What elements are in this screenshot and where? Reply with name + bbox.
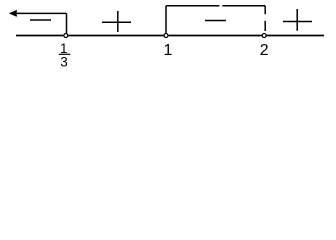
open circle at 1/3 bbox=[64, 34, 68, 38]
box left vertical at 1 bbox=[165, 6, 167, 33]
svg-text:2: 2 bbox=[260, 42, 269, 59]
minus sign left interval bbox=[30, 19, 51, 21]
plus sign right interval horizontal bbox=[283, 21, 312, 23]
box right vertical dash 2 bbox=[264, 21, 266, 31]
plus sign interval (1/3,1) horizontal bbox=[102, 21, 131, 23]
box top edge segment 1 bbox=[166, 5, 219, 7]
box right vertical dash 1 bbox=[264, 6, 266, 14]
box top edge segment 2 bbox=[222, 5, 265, 7]
plus sign interval (1/3,1) vertical bbox=[117, 11, 119, 32]
open circle at 1 bbox=[164, 34, 168, 38]
svg-text:1: 1 bbox=[164, 42, 173, 59]
number line bbox=[16, 35, 324, 37]
plus sign right interval vertical bbox=[296, 9, 298, 31]
svg-text:1: 1 bbox=[60, 41, 68, 56]
wire drop at 1/3 bbox=[66, 13, 68, 33]
open circle at 2 bbox=[262, 34, 266, 38]
left arrow shaft bbox=[14, 12, 67, 14]
minus sign interval (1,2) bbox=[205, 20, 226, 22]
label 1/3 fraction bar bbox=[59, 53, 71, 55]
left arrowhead bbox=[9, 10, 17, 17]
svg-text:3: 3 bbox=[60, 55, 68, 70]
